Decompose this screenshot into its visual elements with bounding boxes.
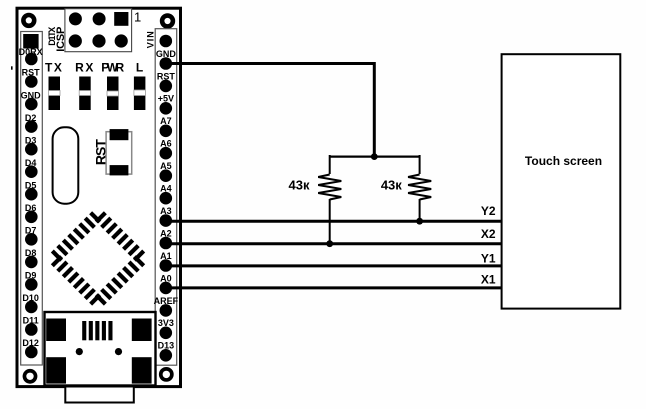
svg-text:43к: 43к [289,178,310,193]
junction GND rail [371,153,378,160]
USB connector J1 overhang tab [44,383,156,403]
svg-text:VIN: VIN [145,31,155,48]
right pin header box [155,29,177,366]
pad D3 [25,135,38,155]
wire A3 Y2 [166,220,502,223]
svg-text:A4: A4 [160,184,172,194]
svg-text:D11: D11 [23,316,39,326]
svg-text:43к: 43к [381,178,402,193]
svg-text:RST: RST [22,68,41,78]
svg-text:+5V: +5V [158,94,174,104]
wire A1 Y1 [166,264,502,267]
ICSP header box [65,9,132,52]
pad D13 [158,341,175,362]
wire resistor top rail [330,156,420,158]
pad A1 [160,251,173,272]
pad A7 [160,116,173,137]
svg-text:D2: D2 [25,113,37,123]
ICSP pad SCK [93,12,106,25]
left pads D0RX..D12 with labels [19,47,43,358]
pad D4 [25,158,38,178]
svg-text:X1: X1 [481,273,496,287]
LED TX [49,77,61,111]
svg-text:D3: D3 [25,135,37,145]
LED PWR [107,77,119,111]
svg-text:D7: D7 [25,226,37,236]
pad RST [22,68,41,88]
pad +5V [158,94,174,115]
pad AREF [154,296,179,317]
svg-text:D4: D4 [25,158,37,168]
pad D7 [25,226,38,246]
stray tick mark [11,66,13,69]
svg-text:GND: GND [156,49,177,59]
wire A0 X1 [166,286,502,289]
wire A2 X2 [166,242,502,245]
pad RST [157,71,176,92]
svg-text:D5: D5 [25,180,37,190]
USB connector J1 body [45,312,156,386]
ICSP pad MISO [69,12,82,25]
pad A4 [160,184,173,205]
mounting hole top-right [160,13,175,28]
touch screen module [502,54,621,308]
mounting hole bottom-right [159,367,174,382]
svg-text:L: L [136,61,143,75]
board U1 Arduino Nano outline [17,8,181,386]
left pin header box [21,32,43,366]
svg-text:A0: A0 [160,273,172,283]
pad D6 [25,203,38,223]
pad A2 [160,228,173,249]
wire GND to resistors [166,64,374,157]
svg-text:D9: D9 [25,271,37,281]
mounting hole top-left [21,13,36,28]
USB pins stripes [82,321,112,340]
pad A5 [160,161,173,182]
pad D12 [22,338,39,358]
pad D5 [25,180,38,200]
resistor R1 43k [318,155,341,244]
pad GND [21,90,42,110]
pad A6 [160,139,173,160]
LED RX [79,77,91,111]
svg-text:D6: D6 [25,203,37,213]
pad D1TX square [23,34,38,49]
MCU U2 QFP-32 rotated [45,205,151,311]
pad D9 [25,271,38,291]
svg-text:RX: RX [75,61,95,75]
svg-text:ICSP: ICSP [55,27,67,52]
svg-text:Touch screen: Touch screen [525,154,602,168]
pad VIN [160,35,173,48]
pad D8 [25,248,38,268]
resistor R2 43k [408,155,431,221]
svg-text:D8: D8 [25,248,37,258]
svg-text:D12: D12 [22,338,39,348]
svg-text:PWR: PWR [101,61,124,75]
svg-text:A3: A3 [160,206,172,216]
pad D10 [22,293,39,313]
svg-text:AREF: AREF [154,296,179,306]
ICSP pad MOSI [92,34,105,47]
LED L [134,77,146,111]
pad D0RX [19,47,43,65]
svg-text:Y1: Y1 [481,252,496,266]
ICSP pad RST square pin1 [114,12,128,26]
junction R2 on Y2 [416,218,423,225]
mounting hole bottom-left [23,369,38,384]
oscillator Y1 oval [53,127,79,203]
svg-text:TX: TX [45,61,63,75]
svg-text:X2: X2 [481,227,496,241]
svg-text:GND: GND [21,90,42,100]
svg-text:1: 1 [134,10,141,25]
svg-text:A7: A7 [160,116,172,126]
svg-text:3V3: 3V3 [158,318,174,328]
svg-text:D0RX: D0RX [19,47,43,57]
pad A3 [160,206,173,227]
ICSP pad GND [115,34,128,47]
svg-text:A2: A2 [160,228,172,238]
reset button SW1 [106,129,132,175]
junction R1 on X2 [326,240,333,247]
pad A0 [160,273,173,294]
pad GND [156,49,177,70]
pad D2 [25,113,38,133]
svg-text:D10: D10 [22,293,39,303]
USB alignment hole right [115,348,122,355]
right pads VIN..D13 with labels [154,35,179,362]
svg-text:A1: A1 [160,251,172,261]
ICSP pad VCC [69,34,82,47]
svg-text:Y2: Y2 [481,204,496,218]
svg-text:RST: RST [157,71,176,81]
pad D11 [23,316,39,336]
svg-text:A5: A5 [160,161,172,171]
svg-text:A6: A6 [160,139,172,149]
USB alignment hole left [76,348,83,355]
svg-text:D13: D13 [158,341,175,351]
pad 3V3 [158,318,174,339]
